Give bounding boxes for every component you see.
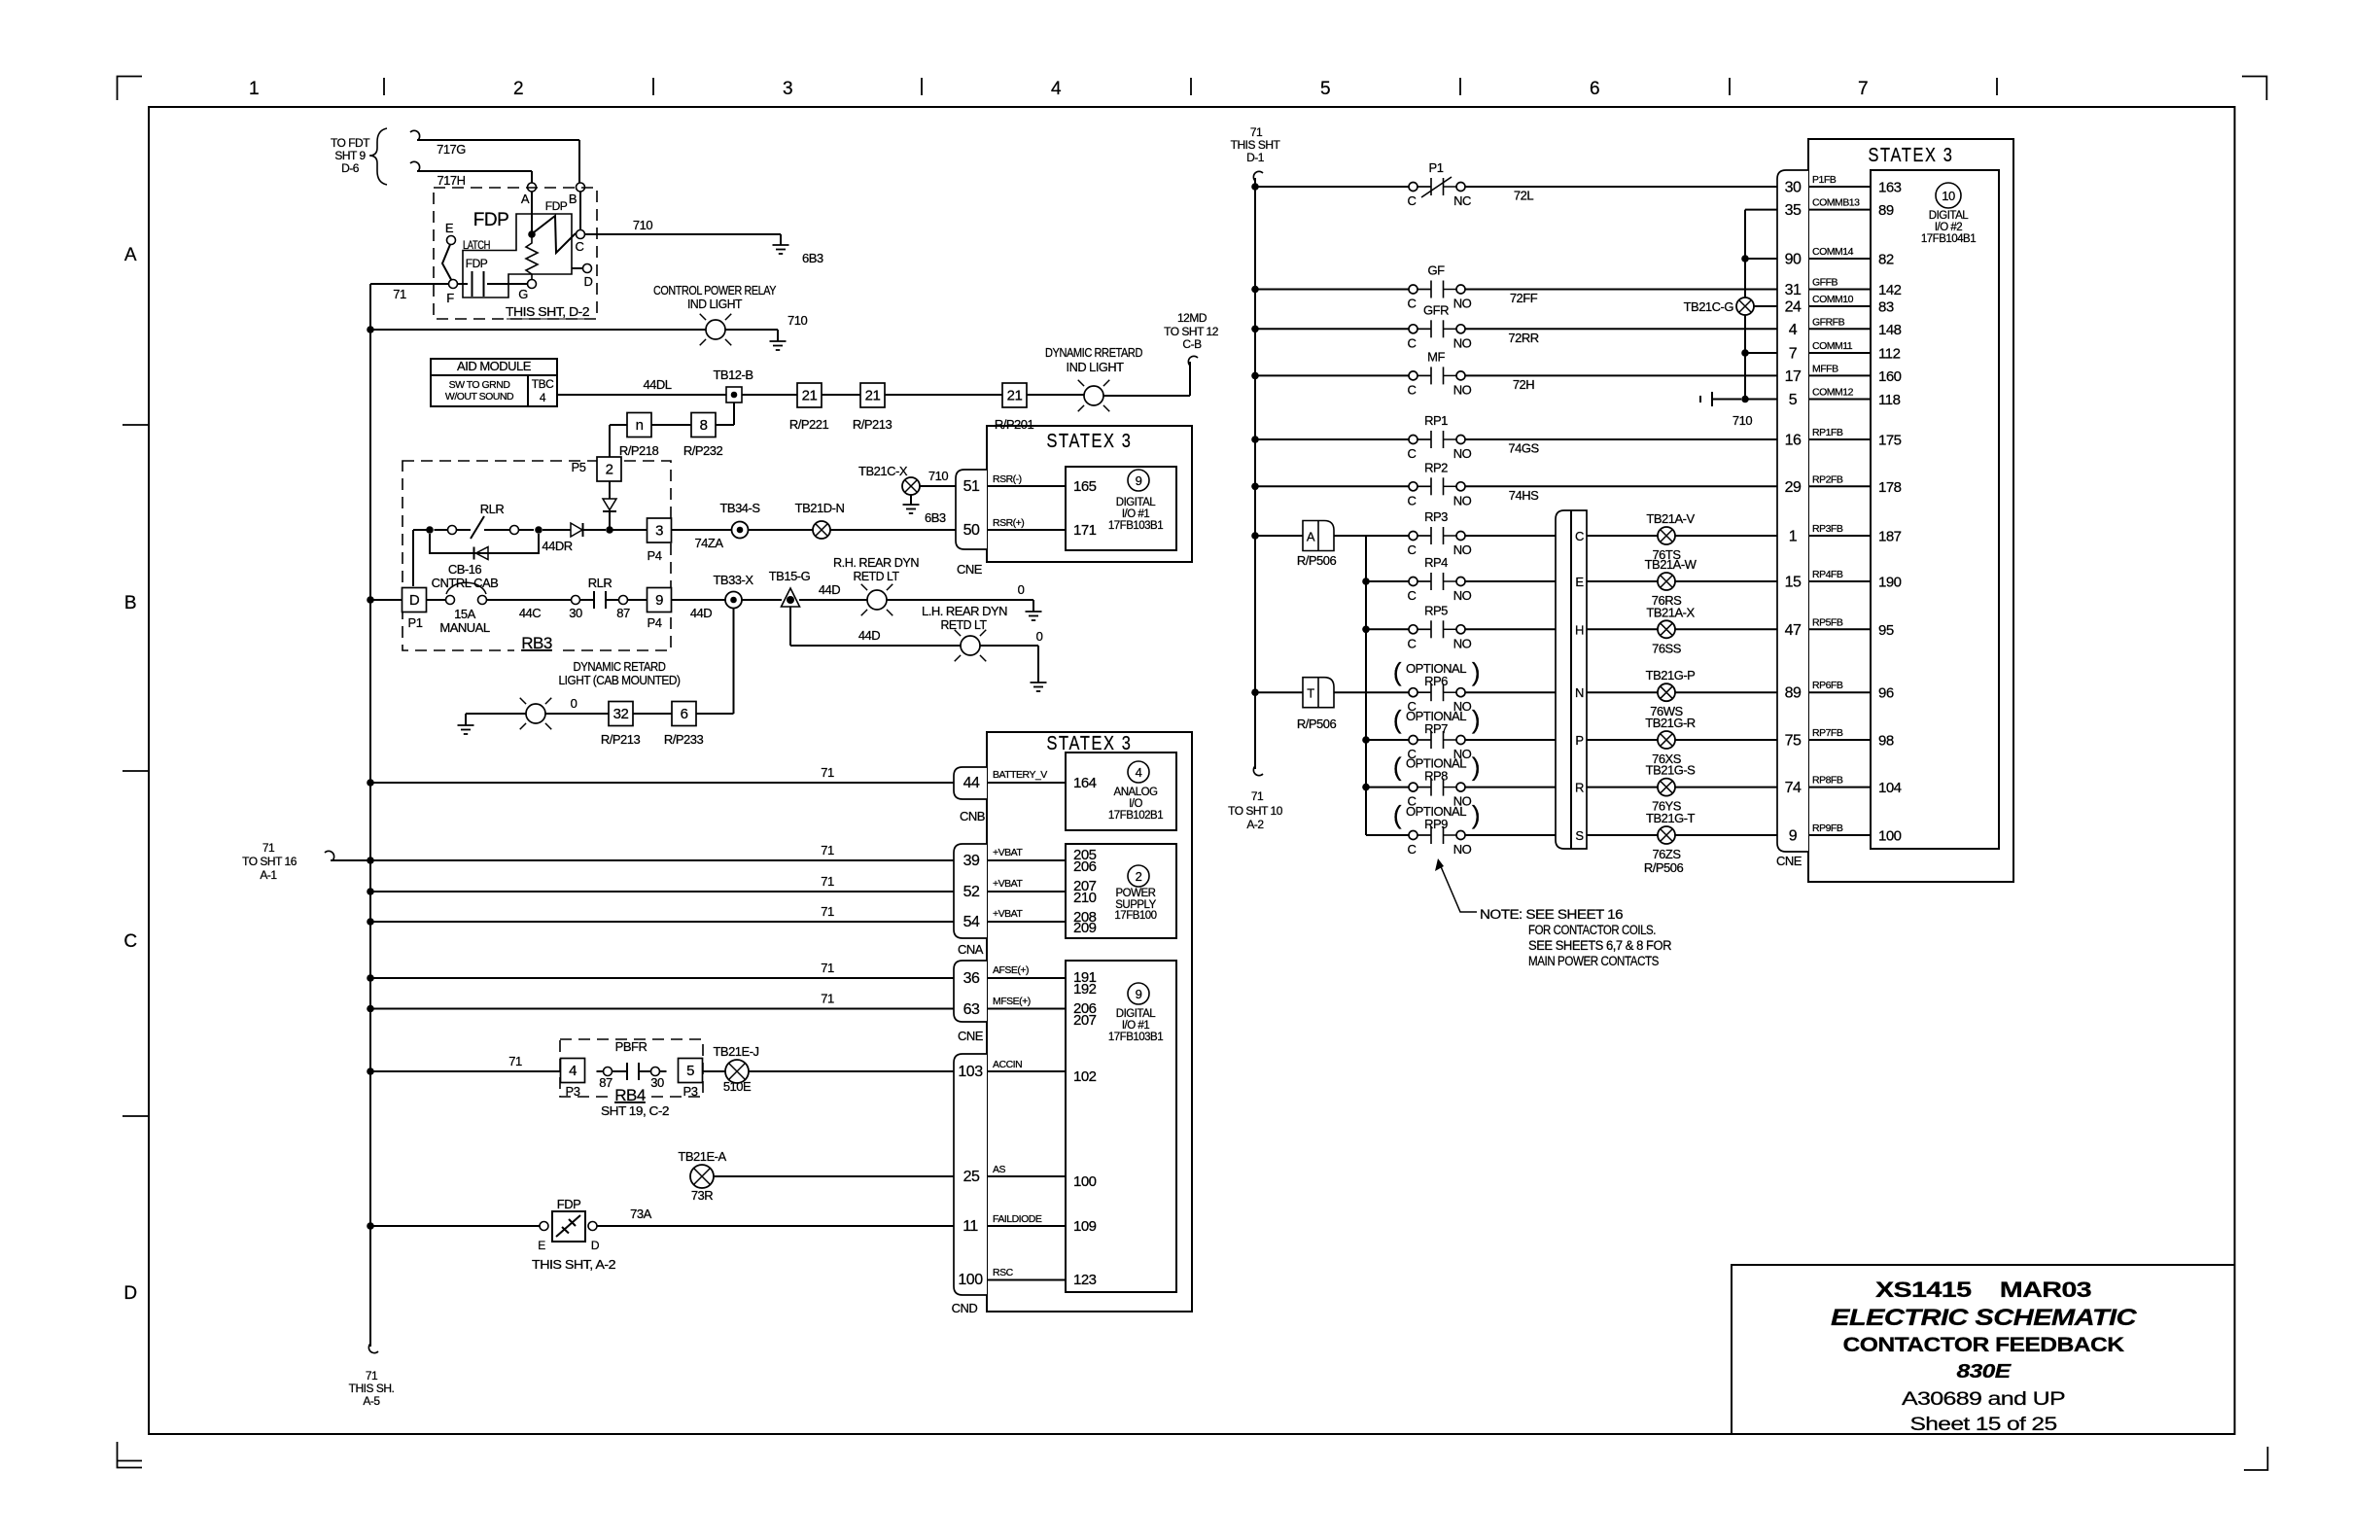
svg-text:71: 71	[366, 1369, 378, 1382]
svg-text:RLR: RLR	[480, 502, 505, 516]
svg-text:CNB: CNB	[960, 809, 985, 823]
svg-text:4: 4	[1051, 79, 1062, 99]
svg-text:RP9: RP9	[1424, 817, 1448, 831]
svg-text:TB21A-V: TB21A-V	[1646, 511, 1695, 526]
svg-text:FDP: FDP	[545, 199, 568, 213]
svg-text:5: 5	[1320, 79, 1330, 99]
svg-text:44D: 44D	[858, 628, 880, 643]
svg-text:E: E	[1575, 575, 1584, 589]
svg-text:N: N	[1575, 685, 1584, 700]
wire to ground	[466, 713, 526, 715]
wire C to ground 6B3	[585, 233, 782, 235]
svg-text:25: 25	[963, 1169, 980, 1185]
svg-text:W/OUT SOUND: W/OUT SOUND	[445, 391, 514, 402]
svg-text:R/P221: R/P221	[789, 417, 829, 432]
svg-text:P3: P3	[566, 1084, 580, 1099]
wire	[427, 599, 446, 601]
svg-text:): )	[1472, 657, 1480, 686]
main left bus 71	[369, 284, 371, 1347]
svg-text:109: 109	[1073, 1218, 1097, 1235]
svg-text:36: 36	[963, 970, 980, 987]
svg-text:6: 6	[681, 706, 688, 722]
wire AFSE 36	[370, 977, 954, 979]
wire 44D to R.H. lamp	[799, 599, 867, 601]
junction node	[367, 596, 374, 604]
svg-text:6B3: 6B3	[802, 251, 823, 265]
svg-text:710: 710	[1732, 413, 1752, 428]
plug T R/P506	[1303, 678, 1334, 708]
svg-text:RP7: RP7	[1424, 721, 1448, 736]
svg-text:RP2: RP2	[1424, 460, 1448, 474]
svg-text:A: A	[521, 192, 530, 206]
svg-text:76ZS: 76ZS	[1652, 847, 1681, 861]
svg-text:71: 71	[821, 765, 834, 780]
svg-text:R/P232: R/P232	[683, 443, 723, 458]
wire 717H	[410, 161, 420, 171]
terminal E	[447, 236, 456, 245]
wire from strip to terminal TB21A-V	[1587, 535, 1658, 537]
FDP coil box (stepped outline)	[463, 214, 572, 297]
wire 74ZA	[672, 529, 732, 531]
wire	[749, 529, 814, 531]
svg-text:NO: NO	[1453, 588, 1472, 603]
svg-text:LIGHT (CAB MOUNTED): LIGHT (CAB MOUNTED)	[559, 673, 681, 687]
wire into R/P506 connector strip	[1466, 834, 1557, 836]
svg-text:21: 21	[1007, 388, 1023, 404]
pin RSC wire	[987, 1279, 1066, 1281]
digital I/O 1 module box (lower)	[1066, 961, 1176, 1292]
svg-text:NO: NO	[1453, 297, 1472, 311]
svg-text:RP3FB: RP3FB	[1812, 523, 1843, 535]
svg-text:87: 87	[599, 1075, 612, 1090]
wire to CNE connector	[1675, 535, 1777, 537]
svg-text:142: 142	[1878, 282, 1902, 298]
wire 74HS	[1466, 485, 1778, 487]
svg-text:51: 51	[963, 478, 980, 495]
wire	[822, 394, 860, 396]
svg-text:F: F	[446, 291, 454, 305]
wire	[742, 599, 782, 601]
junction node	[1251, 532, 1259, 540]
svg-text:TB21E-A: TB21E-A	[678, 1149, 726, 1164]
wire to 12MD	[1103, 395, 1190, 397]
svg-text:209: 209	[1073, 920, 1097, 936]
connector CNE (right)	[1777, 170, 1808, 852]
svg-text:THIS SHT, D-2: THIS SHT, D-2	[506, 304, 589, 319]
svg-text:TB21G-P: TB21G-P	[1646, 668, 1696, 682]
wire into R/P506 connector strip	[1466, 628, 1557, 630]
svg-text:39: 39	[963, 853, 980, 869]
svg-text:32: 32	[613, 706, 629, 722]
svg-text:H: H	[1575, 622, 1584, 637]
svg-text:187: 187	[1878, 529, 1902, 545]
AID MODULE box	[431, 359, 557, 406]
svg-text:75: 75	[1785, 733, 1802, 750]
svg-text:CNE: CNE	[957, 562, 983, 577]
svg-text:R/P506: R/P506	[1297, 553, 1337, 568]
svg-text:15: 15	[1785, 575, 1802, 591]
wire to contact RP7	[1366, 739, 1409, 741]
svg-text:510E: 510E	[723, 1079, 752, 1094]
wire to CNE connector	[1675, 787, 1777, 788]
wire to contact RP5	[1366, 628, 1409, 630]
diode	[603, 499, 616, 510]
svg-text:9: 9	[1136, 987, 1142, 1001]
connector CND	[954, 1054, 987, 1295]
R/P506 connector strip	[1556, 510, 1587, 849]
svg-text:C-B: C-B	[1182, 337, 1202, 351]
svg-text:L.H. REAR DYN: L.H. REAR DYN	[922, 604, 1007, 618]
svg-text:44D: 44D	[690, 606, 712, 620]
svg-text:717H: 717H	[437, 173, 465, 188]
svg-text:717G: 717G	[437, 142, 466, 157]
svg-text:MFSE(+): MFSE(+)	[993, 996, 1031, 1007]
svg-text:71: 71	[821, 904, 834, 919]
svg-text:C: C	[1408, 493, 1417, 507]
wire from strip to terminal TB21A-X	[1587, 628, 1658, 630]
analog I/O module box	[1066, 752, 1176, 830]
wire	[1027, 394, 1084, 396]
svg-text:35: 35	[1785, 202, 1802, 219]
svg-text:44DR: 44DR	[542, 539, 572, 553]
wire to contact RP3	[1366, 535, 1409, 537]
svg-text:5: 5	[686, 1063, 694, 1079]
connector CNB pin 44	[954, 767, 987, 799]
svg-text:RP1: RP1	[1424, 413, 1448, 428]
svg-text:10: 10	[1942, 189, 1955, 203]
svg-text:71: 71	[821, 874, 834, 889]
wire to control power relay ind light	[370, 329, 706, 331]
wire	[519, 529, 535, 531]
svg-text:21: 21	[865, 388, 881, 404]
svg-text:C: C	[123, 931, 136, 952]
svg-text:63: 63	[963, 1001, 980, 1018]
svg-text:NO: NO	[1453, 842, 1472, 857]
svg-text:17FB103B1: 17FB103B1	[1108, 1032, 1163, 1043]
svg-text:4: 4	[540, 391, 546, 404]
svg-text:9: 9	[1789, 828, 1798, 845]
svg-text:30: 30	[1785, 180, 1802, 196]
latch linkage	[442, 245, 451, 280]
pin wires	[987, 485, 1066, 487]
digital I/O 2 module box	[1871, 170, 1999, 849]
wire 72RR	[1466, 328, 1778, 330]
svg-text:2: 2	[606, 462, 613, 478]
svg-text:C: C	[1408, 193, 1417, 208]
svg-text:SW TO GRND: SW TO GRND	[449, 379, 511, 391]
svg-text:RP9FB: RP9FB	[1812, 822, 1843, 834]
svg-text:17FB103B1: 17FB103B1	[1108, 520, 1163, 532]
power supply module box	[1066, 844, 1176, 938]
svg-text:710: 710	[787, 313, 807, 328]
contactor aux contact GF	[1409, 281, 1465, 298]
wire into R/P506 connector strip	[1466, 580, 1557, 582]
wire lamp to ground	[725, 329, 778, 331]
svg-text:TB21A-X: TB21A-X	[1646, 605, 1695, 619]
svg-text:112: 112	[1878, 346, 1901, 363]
svg-text:AID MODULE: AID MODULE	[457, 359, 532, 373]
svg-text:MF: MF	[1427, 349, 1445, 364]
right bus 71	[1253, 171, 1263, 181]
wire to contact GF	[1255, 289, 1409, 291]
wire	[1334, 691, 1366, 693]
svg-text:71: 71	[1250, 125, 1263, 139]
svg-text:TB21D-N: TB21D-N	[795, 501, 845, 515]
wire 44DL	[557, 394, 726, 396]
svg-text:GF: GF	[1427, 263, 1445, 278]
wire from strip to terminal TB21G-S	[1587, 787, 1658, 788]
svg-text:NO: NO	[1453, 542, 1472, 557]
svg-text:IND LIGHT: IND LIGHT	[1067, 360, 1125, 374]
svg-text:71: 71	[821, 992, 834, 1006]
wire to contact MF	[1255, 374, 1409, 376]
svg-text:DYNAMIC RETARD: DYNAMIC RETARD	[574, 659, 666, 674]
junction node	[1251, 483, 1259, 491]
wire to CNE connector	[1675, 691, 1777, 693]
svg-text:12MD: 12MD	[1177, 311, 1207, 325]
svg-text:P3: P3	[683, 1084, 698, 1099]
wire TB12-B to R/P232	[733, 402, 735, 425]
module id circle 4	[1128, 761, 1149, 783]
svg-text:RSC: RSC	[993, 1267, 1014, 1278]
svg-text:R/P506: R/P506	[1297, 717, 1337, 731]
connector pin D P1	[402, 588, 427, 612]
svg-text:NO: NO	[1453, 636, 1472, 650]
svg-text:I/O: I/O	[1129, 798, 1142, 810]
wire 71 to RB4	[370, 1070, 561, 1072]
svg-text:C: C	[1408, 588, 1417, 603]
junction node	[1741, 349, 1749, 357]
control power relay ind light lamp	[700, 314, 732, 346]
svg-text:COMMB13: COMMB13	[1812, 197, 1860, 209]
svg-text:DYNAMIC RRETARD: DYNAMIC RRETARD	[1045, 345, 1142, 360]
svg-text:71: 71	[1251, 789, 1264, 803]
svg-text:31: 31	[1785, 282, 1802, 298]
svg-text:71: 71	[393, 287, 406, 301]
junction node	[535, 526, 542, 534]
terminal B	[577, 183, 585, 192]
svg-text:COMM14: COMM14	[1812, 246, 1854, 258]
ground	[1026, 612, 1042, 620]
svg-text:I/O #1: I/O #1	[1122, 508, 1149, 520]
wire to contact GFR	[1255, 328, 1409, 330]
svg-text:IND LIGHT: IND LIGHT	[687, 297, 743, 311]
junction node	[1251, 326, 1259, 333]
svg-text:P4: P4	[647, 548, 662, 563]
svg-text:21: 21	[802, 388, 818, 404]
svg-text:90: 90	[1785, 252, 1802, 268]
svg-text:+VBAT: +VBAT	[993, 908, 1023, 920]
svg-text:R/P506: R/P506	[1644, 860, 1684, 875]
wire to plug A	[1255, 535, 1303, 537]
svg-text:G: G	[518, 287, 528, 301]
svg-text:0: 0	[1018, 582, 1025, 597]
svg-text:DIGITAL: DIGITAL	[1116, 1008, 1156, 1020]
connector pin 3 P4	[647, 518, 672, 542]
svg-text:30: 30	[650, 1075, 664, 1090]
svg-text:R.H. REAR DYN: R.H. REAR DYN	[833, 555, 919, 570]
svg-text:A: A	[124, 245, 137, 265]
svg-text:NOTE: SEE SHEET 16: NOTE: SEE SHEET 16	[1480, 907, 1623, 922]
svg-text:TO SHT 10: TO SHT 10	[1228, 804, 1283, 818]
wire to FDP contact	[370, 1225, 540, 1227]
wire	[633, 713, 672, 715]
svg-text:TB21E-J: TB21E-J	[713, 1044, 758, 1059]
svg-text:118: 118	[1878, 392, 1901, 408]
svg-text:I/O #2: I/O #2	[1935, 222, 1962, 233]
svg-text:P: P	[1575, 733, 1583, 748]
svg-text:CB-16: CB-16	[448, 562, 482, 577]
module id circle 9	[1128, 470, 1149, 491]
terminal D	[583, 264, 592, 273]
svg-text:MANUAL: MANUAL	[439, 620, 489, 635]
svg-text:FAILDIODE: FAILDIODE	[993, 1213, 1042, 1225]
riser from TB33-X	[733, 609, 735, 715]
contactor aux contact GFR	[1409, 320, 1465, 337]
svg-text:30: 30	[569, 606, 582, 620]
svg-text:FOR CONTACTOR COILS.: FOR CONTACTOR COILS.	[1528, 923, 1656, 937]
svg-text:47: 47	[1785, 622, 1802, 639]
svg-text:RP4: RP4	[1424, 555, 1448, 570]
svg-text:100: 100	[1073, 1173, 1097, 1190]
svg-text:STATEX 3: STATEX 3	[1047, 431, 1133, 452]
svg-text:ANALOG: ANALOG	[1114, 787, 1158, 798]
R.H. rear dyn retd lt lamp	[861, 584, 893, 616]
note arrow	[1440, 864, 1477, 912]
svg-text:CND: CND	[952, 1301, 978, 1315]
svg-text:206: 206	[1073, 858, 1097, 875]
wire 72L	[1466, 186, 1778, 188]
svg-text:D: D	[591, 1239, 600, 1252]
svg-text:NO: NO	[1453, 446, 1472, 461]
svg-text:74HS: 74HS	[1509, 488, 1539, 503]
svg-text:830E: 830E	[1957, 1361, 2012, 1382]
svg-text:72L: 72L	[1514, 189, 1533, 203]
svg-text:RB3: RB3	[521, 634, 552, 652]
contactor aux contact RP4	[1409, 573, 1465, 590]
svg-text:D: D	[584, 274, 593, 289]
svg-text:C: C	[1408, 542, 1417, 557]
wire 72H	[1466, 374, 1778, 376]
connector pin 6 R/P233	[672, 702, 696, 726]
svg-text:R/P218: R/P218	[619, 443, 659, 458]
digital I/O 1 module box	[1066, 467, 1176, 550]
wire from strip to terminal TB21G-P	[1587, 691, 1658, 693]
svg-text:RSR(+): RSR(+)	[993, 517, 1024, 529]
svg-text:FDP: FDP	[473, 210, 509, 230]
wire to contact RP9	[1366, 834, 1409, 836]
svg-text:TB15-G: TB15-G	[769, 569, 811, 583]
plug A R/P506	[1303, 521, 1334, 551]
svg-text:STATEX 3: STATEX 3	[1047, 733, 1133, 754]
svg-text:74ZA: 74ZA	[694, 536, 723, 550]
svg-text:17: 17	[1785, 368, 1802, 385]
svg-text:ELECTRIC SCHEMATIC: ELECTRIC SCHEMATIC	[1831, 1305, 2137, 1331]
svg-text:TO SHT 16: TO SHT 16	[242, 855, 297, 868]
svg-text:100: 100	[1878, 828, 1902, 845]
wire 72FF	[1466, 289, 1778, 291]
svg-text:NO: NO	[1453, 493, 1472, 507]
svg-text:171: 171	[1073, 522, 1097, 539]
svg-text:73R: 73R	[691, 1188, 713, 1203]
svg-text:NO: NO	[1453, 382, 1472, 397]
junction node	[367, 779, 374, 787]
svg-text:89: 89	[1785, 685, 1802, 702]
svg-text:R: R	[1575, 781, 1584, 795]
junction node	[367, 1222, 374, 1230]
svg-text:AS: AS	[993, 1164, 1006, 1175]
svg-text:102: 102	[1073, 1068, 1097, 1085]
svg-text:24: 24	[1785, 299, 1802, 316]
svg-text:CONTROL POWER RELAY: CONTROL POWER RELAY	[653, 283, 777, 297]
svg-text:RB4: RB4	[614, 1086, 646, 1104]
STATEX 3 box (I/O rack)	[987, 732, 1192, 1312]
svg-text:ACCIN: ACCIN	[993, 1059, 1022, 1070]
svg-text:15A: 15A	[454, 607, 475, 621]
wire to P5	[610, 424, 627, 426]
svg-text:MAIN POWER CONTACTS: MAIN POWER CONTACTS	[1528, 954, 1659, 968]
svg-text:THIS SH.: THIS SH.	[349, 1382, 395, 1395]
corner mark bottom-right	[2244, 1447, 2268, 1470]
svg-text:COMM12: COMM12	[1812, 387, 1854, 399]
svg-text:17FB102B1: 17FB102B1	[1108, 810, 1163, 822]
svg-text:52: 52	[963, 884, 980, 900]
svg-text:NC: NC	[1453, 193, 1471, 208]
junction node	[606, 526, 613, 534]
contactor aux contact MF	[1409, 367, 1465, 384]
wire to contact RP4	[1366, 580, 1409, 582]
svg-text:CNA: CNA	[958, 942, 984, 957]
junction node	[1362, 577, 1370, 585]
svg-text:164: 164	[1073, 775, 1097, 791]
junction node	[367, 888, 374, 895]
svg-text:RP4FB: RP4FB	[1812, 569, 1843, 580]
wire 71 battery	[370, 782, 954, 784]
svg-text:CNE: CNE	[1776, 854, 1802, 868]
svg-text:P4: P4	[647, 615, 662, 630]
wire to pin 51	[920, 485, 956, 487]
svg-text:P1: P1	[1429, 160, 1444, 175]
wire +VBAT 39	[370, 859, 954, 861]
svg-text:3: 3	[783, 79, 792, 99]
svg-text:STATEX 3: STATEX 3	[1869, 145, 1954, 166]
contactor aux contact RP3	[1409, 527, 1465, 544]
svg-text:THIS SHT, A-2: THIS SHT, A-2	[532, 1257, 615, 1272]
COMM bus vertical	[1744, 210, 1746, 400]
wire to ground	[887, 599, 1033, 601]
corner mark top-right	[2242, 77, 2267, 101]
coil resistor zigzag	[526, 237, 538, 279]
svg-text:TB12-B: TB12-B	[713, 367, 752, 382]
ground 6B3	[773, 245, 789, 254]
contactor aux contact RP5	[1409, 620, 1465, 638]
svg-text:R/P213: R/P213	[601, 732, 641, 747]
svg-text:95: 95	[1878, 622, 1894, 639]
svg-text:50: 50	[963, 522, 980, 539]
wire into R/P506 connector strip	[1466, 787, 1557, 788]
svg-text:RETD LT: RETD LT	[854, 569, 900, 583]
svg-text:44DL: 44DL	[643, 377, 671, 392]
svg-text:S: S	[1575, 828, 1584, 843]
dynamic retard cab lamp	[520, 698, 552, 730]
svg-text:SHT 19, C-2: SHT 19, C-2	[601, 1103, 669, 1118]
junction node	[1741, 255, 1749, 262]
module id circle 2	[1128, 865, 1149, 887]
svg-text:72H: 72H	[1513, 377, 1534, 392]
svg-text:A: A	[1307, 530, 1315, 544]
svg-text:A30689 and UP: A30689 and UP	[1902, 1389, 2065, 1410]
terminal C	[577, 230, 585, 239]
